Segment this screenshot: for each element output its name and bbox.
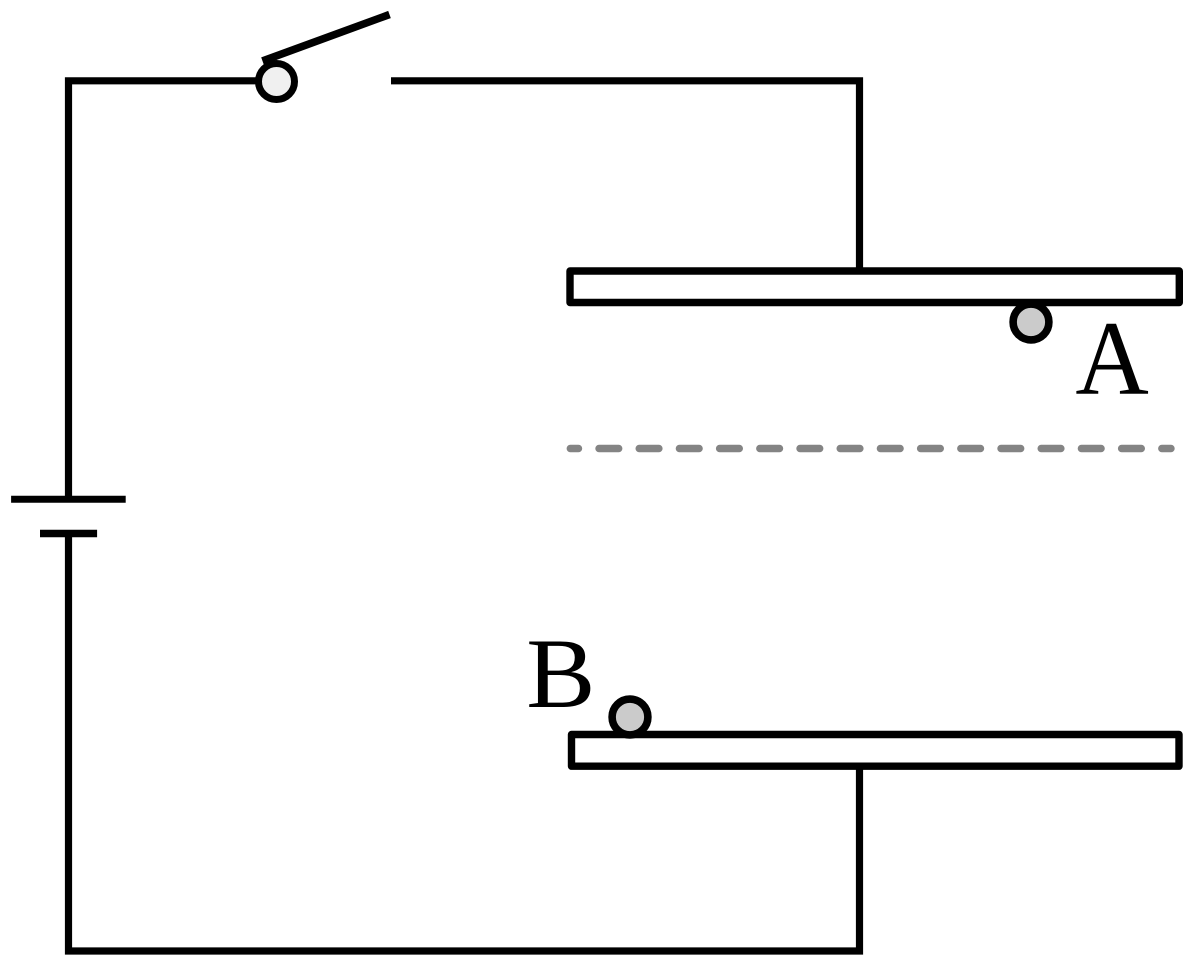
bottom capacitor plate xyxy=(572,735,1180,767)
ball B (charged ball resting on bottom plate) xyxy=(612,699,648,735)
wire: bottom plate down and across to battery negative terminal xyxy=(69,534,860,952)
ball A (charged ball hanging under top plate) xyxy=(1013,304,1049,340)
label B xyxy=(526,618,595,729)
wire: battery positive terminal up and across to switch xyxy=(69,81,259,499)
svg-text:A: A xyxy=(1075,301,1149,417)
battery negative plate (short) xyxy=(40,530,97,538)
dashed midline between plates xyxy=(570,445,1171,452)
label A xyxy=(1075,301,1149,417)
switch S lever (open) xyxy=(263,15,390,62)
wire: switch to top plate xyxy=(391,81,860,272)
top capacitor plate xyxy=(570,271,1179,303)
svg-text:B: B xyxy=(526,618,595,729)
battery positive plate (long) xyxy=(11,496,126,503)
switch S pivot xyxy=(259,64,295,100)
